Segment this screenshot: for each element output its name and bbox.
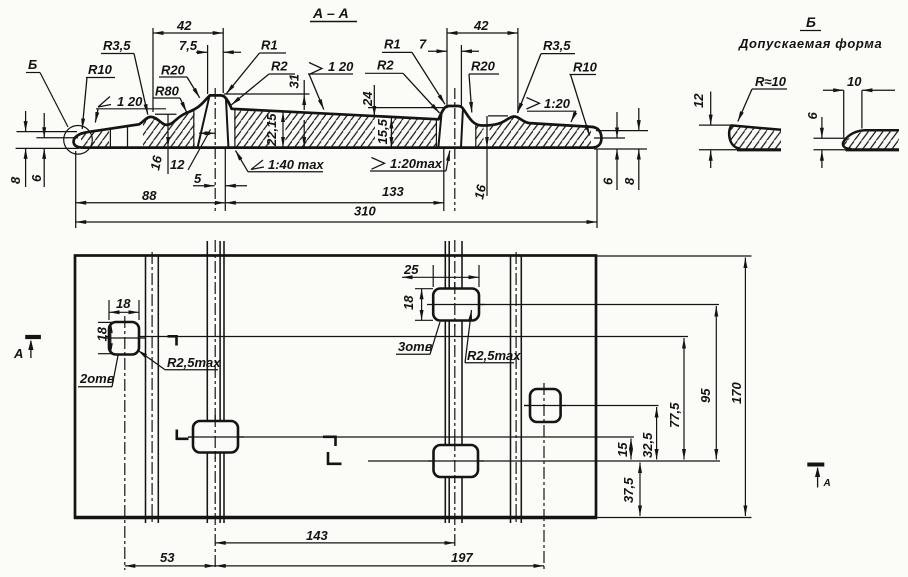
plate outline (75, 256, 596, 518)
label R20 left with leader (159, 63, 200, 98)
left rib centerline (214, 88, 216, 211)
svg-text:R3,5: R3,5 (103, 38, 131, 53)
right rib right face edge (461, 110, 463, 148)
svg-text:1:20max: 1:20max (390, 156, 443, 171)
svg-text:42: 42 (176, 18, 192, 33)
svg-text:R10: R10 (88, 62, 113, 77)
hole wall left of left rib (193, 111, 195, 147)
svg-text:А: А (13, 346, 23, 361)
svg-text:R3,5: R3,5 (543, 38, 571, 53)
svg-text:95: 95 (698, 388, 713, 403)
svg-text:18: 18 (116, 296, 131, 311)
dim 37,5 (621, 463, 640, 517)
dim 88 (76, 151, 226, 228)
label R2 left with leader (231, 59, 295, 106)
svg-text:R2: R2 (377, 58, 394, 73)
wave centerline right (515, 252, 517, 523)
detail B right dim 6 (805, 112, 846, 169)
right rib left face edge (438, 113, 441, 148)
hole D center cross (188, 436, 244, 438)
bottom edge extension right (597, 517, 752, 519)
detail B title (738, 14, 882, 51)
svg-text:42: 42 (473, 18, 489, 33)
hole C 18x18 (530, 389, 561, 422)
dim 6 left end (29, 113, 78, 187)
label R3,5 left with leader (101, 38, 148, 115)
label R2,5max hole A with leader (138, 350, 222, 370)
svg-text:R20: R20 (471, 59, 496, 74)
dim 18 left of hole A (95, 322, 114, 353)
svg-text:6: 6 (29, 174, 44, 182)
dim 133 (225, 148, 443, 211)
dim 25 top of hole B (402, 262, 479, 287)
dim 77,5 (667, 338, 684, 460)
svg-text:R≈10: R≈10 (755, 74, 787, 89)
section A-A outline (74, 95, 602, 147)
label R2,5max hole B with leader (465, 310, 521, 363)
dim 15 (615, 439, 631, 460)
row line lower mid hole (368, 460, 720, 462)
hatch gap dim 16 right (484, 86, 490, 150)
dim 42 right (447, 18, 518, 113)
dim 8 right end (622, 108, 639, 190)
hole A vertical centerline (124, 316, 126, 570)
dim 16 left below wave (147, 114, 176, 174)
svg-text:1 20: 1 20 (328, 59, 354, 74)
svg-text:Допускаемая форма: Допускаемая форма (738, 36, 882, 51)
wave line left b (157, 256, 159, 523)
svg-text:1:20: 1:20 (544, 96, 571, 111)
dim 310 (76, 149, 597, 228)
svg-text:15,5: 15,5 (375, 118, 390, 144)
label R~10 with leader (738, 74, 787, 122)
svg-text:8: 8 (8, 176, 23, 184)
svg-text:22,15: 22,15 (264, 113, 279, 147)
label R10 left with leader (82, 62, 115, 129)
svg-text:197: 197 (451, 550, 473, 565)
rib right edge line c (461, 241, 463, 523)
rib left edge line c (223, 241, 225, 523)
dim 5 below baseline (193, 148, 247, 211)
svg-text:6: 6 (805, 112, 820, 120)
dim 95 (698, 306, 716, 460)
svg-text:15: 15 (615, 442, 630, 457)
rib right edge line a (444, 241, 446, 523)
svg-text:R2,5max: R2,5max (167, 355, 221, 370)
rib right centerline long (454, 240, 456, 546)
label slope 1 20 centre with leader (308, 59, 354, 110)
label R3,5 right with leader (518, 38, 576, 113)
svg-text:12: 12 (170, 157, 185, 172)
dim 31 with extension line (224, 74, 310, 147)
dim 12 rib base with leader (170, 130, 215, 173)
label 3otv with leader (396, 322, 440, 354)
svg-text:R20: R20 (161, 63, 186, 78)
hole B 25x18 (433, 289, 479, 321)
hole wall left of right rib (435, 120, 437, 147)
hole wall right of right rib (475, 125, 477, 146)
hole A 18x18 (109, 322, 139, 355)
left rib left face edge (198, 96, 210, 147)
svg-text:143: 143 (306, 528, 328, 543)
dim 170 (729, 258, 745, 517)
wave line left a (145, 256, 147, 523)
hole A center cross (103, 337, 145, 339)
dim 16 right below dip (471, 116, 508, 201)
row line mid right hole (524, 405, 659, 407)
hole wall right of left rib (234, 109, 236, 146)
label R1 left with leader (226, 38, 286, 94)
rib right edge line b (448, 241, 450, 523)
wave centerline left (151, 252, 153, 523)
label 1:40 max with leader (236, 151, 325, 173)
hole B center cross (427, 304, 485, 306)
dim 143 (215, 528, 455, 543)
svg-text:24: 24 (360, 91, 375, 107)
dim 32,5 (640, 407, 657, 460)
row line upper mid hole (433, 304, 719, 306)
dim 42 left (153, 18, 223, 112)
svg-text:1 20: 1 20 (117, 94, 143, 109)
svg-text:R1: R1 (384, 37, 401, 52)
tick left flat zone a (109, 129, 111, 147)
hatch gap dim 22,15 (270, 86, 285, 150)
svg-text:Б: Б (806, 14, 816, 30)
label 1:20 max with leader (370, 151, 450, 172)
tick left flat zone b (127, 126, 129, 146)
dim 8 left end (8, 111, 79, 187)
rib left edge line a (206, 241, 208, 523)
dim 22,15 (264, 112, 283, 148)
corner mark 2 (177, 430, 189, 439)
detail B circle (64, 126, 93, 155)
svg-text:R2: R2 (271, 59, 288, 74)
hatch gap left flat zone (109, 86, 143, 150)
label slope 1:20 right with leader (527, 96, 577, 122)
dim 7 right (419, 37, 479, 109)
section marker A right (807, 463, 830, 490)
dim 18 left of hole B (401, 289, 433, 321)
wave line right a (510, 256, 512, 523)
svg-text:2отв: 2отв (79, 371, 115, 386)
hole E 25x18 (434, 445, 479, 477)
right rib centerline (454, 88, 456, 211)
svg-text:31: 31 (287, 74, 302, 88)
dim 53 (125, 550, 215, 566)
svg-text:10: 10 (847, 74, 862, 89)
top edge extension right (596, 255, 752, 257)
detail B left dim 12 (691, 92, 738, 169)
svg-text:12: 12 (691, 93, 706, 108)
row line lower left hole (188, 436, 634, 438)
corner mark 4 (328, 452, 342, 464)
svg-text:R2,5max: R2,5max (467, 348, 521, 363)
svg-text:32,5: 32,5 (640, 432, 655, 458)
label slope 1 20 left with leader arrow (95, 94, 166, 123)
svg-text:Б: Б (28, 57, 37, 72)
svg-text:А – А: А – А (312, 5, 349, 21)
svg-text:53: 53 (160, 550, 175, 565)
section marker A left (13, 335, 41, 361)
detail B left profile (722, 118, 784, 152)
svg-text:1:40 max: 1:40 max (268, 157, 324, 172)
hatch gap dim 15,5 (375, 86, 391, 150)
plate bottom edge thick (74, 516, 597, 520)
hole C center cross (524, 405, 566, 407)
hatch gap hole through left rib (195, 86, 235, 150)
left rib right face edge (226, 100, 228, 148)
row line upper left hole (106, 336, 688, 338)
svg-text:7: 7 (419, 37, 427, 52)
svg-text:3отв: 3отв (398, 339, 433, 354)
dim 24 with extension line (360, 85, 448, 116)
svg-text:77,5: 77,5 (667, 402, 682, 428)
corner mark 3 (323, 437, 336, 446)
rib left edge line b (219, 241, 221, 523)
hole C vertical centerline (543, 383, 545, 570)
detail B right profile (836, 122, 900, 152)
label R80 with leader (153, 84, 187, 113)
svg-text:8: 8 (622, 177, 637, 185)
detail B right dim 10 (823, 74, 895, 138)
label 2otv with leader (78, 356, 118, 387)
svg-text:R80: R80 (155, 84, 180, 99)
svg-text:18: 18 (95, 326, 110, 341)
svg-text:310: 310 (354, 204, 376, 219)
rib left centerline long (214, 240, 216, 570)
dim 6 right end (594, 112, 648, 190)
svg-text:18: 18 (401, 295, 416, 310)
wave line right b (520, 256, 522, 523)
svg-text:170: 170 (729, 382, 744, 404)
svg-text:88: 88 (142, 188, 157, 203)
label R2 right with leader (365, 58, 440, 114)
hole D 25x18 (193, 421, 238, 453)
section A-A body fill (81, 85, 591, 150)
svg-text:6: 6 (601, 177, 616, 185)
svg-text:А: А (823, 478, 831, 489)
svg-text:R10: R10 (573, 60, 598, 75)
label R1 right with leader (382, 37, 445, 105)
label R10 right with leader (570, 60, 598, 136)
dim 15,5 (375, 118, 391, 147)
svg-text:133: 133 (382, 184, 404, 199)
label R20 right with leader (469, 59, 499, 113)
hatch gap hole through right rib (437, 86, 475, 150)
dim 197 (215, 550, 544, 566)
hole E center cross (428, 460, 484, 462)
corner mark 1 (168, 336, 177, 345)
dim 18 top of hole A (109, 296, 139, 320)
svg-text:37,5: 37,5 (621, 477, 636, 503)
dim 7,5 (179, 38, 241, 94)
label B with leader (26, 57, 68, 127)
svg-text:16: 16 (147, 154, 165, 172)
svg-text:7,5: 7,5 (179, 38, 198, 53)
section A-A title (310, 5, 357, 22)
svg-text:R1: R1 (261, 38, 278, 53)
svg-text:5: 5 (194, 171, 202, 186)
svg-text:25: 25 (403, 262, 419, 277)
